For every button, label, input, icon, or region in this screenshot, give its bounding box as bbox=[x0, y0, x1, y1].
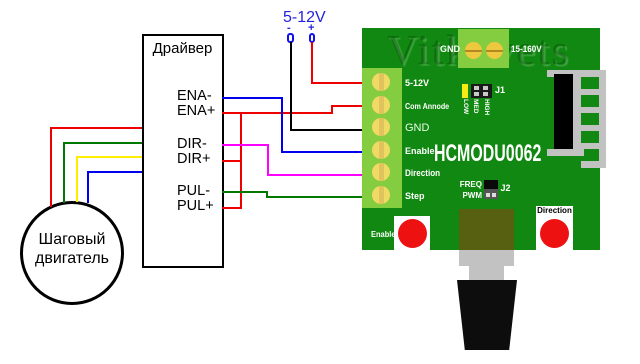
label LOW bbox=[462, 99, 469, 114]
wire DIR- magenta to Direction bbox=[0, 0, 640, 1]
heatsink rung 2 bbox=[581, 107, 599, 113]
probe plus sign bbox=[308, 22, 314, 34]
wire motor B green bbox=[0, 0, 640, 1]
heatsink rung 4 bbox=[581, 143, 599, 149]
driver box (Драйвер) bbox=[142, 34, 224, 268]
probe minus sign bbox=[287, 22, 291, 34]
pin labels DIR bbox=[177, 137, 210, 168]
heatsink right rail bbox=[599, 70, 606, 168]
label Enable button bbox=[371, 229, 396, 239]
label Direction pin bbox=[405, 168, 440, 178]
potentiometer bushing wide bbox=[459, 250, 514, 266]
label GND top bbox=[440, 44, 460, 54]
wire power minus black bbox=[0, 0, 640, 1]
jumper J1 yellow shunt bbox=[462, 84, 468, 99]
probe terminal minus bbox=[287, 33, 294, 43]
PCB module U1 board bbox=[362, 28, 600, 250]
heatsink bottom bar bbox=[547, 149, 584, 156]
pin labels PUL bbox=[177, 184, 214, 215]
label 15-160V bbox=[511, 44, 542, 54]
wire ENA+ red to Com Annode bbox=[0, 0, 640, 1]
wire red common bus bbox=[240, 112, 242, 210]
label Enable pin bbox=[405, 146, 435, 156]
terminal block J4 bbox=[362, 68, 402, 208]
wire PUL- green to Step bbox=[0, 0, 640, 1]
wire ENA- blue to Enable bbox=[0, 0, 640, 1]
potentiometer knob bbox=[457, 280, 517, 350]
label HIGH bbox=[483, 99, 490, 115]
probe terminal plus bbox=[309, 33, 316, 43]
IC black bar bbox=[554, 74, 573, 149]
button Enable bbox=[394, 216, 430, 250]
screw Step bbox=[372, 186, 390, 204]
label PWM bbox=[462, 191, 482, 200]
wire power plus red bbox=[0, 0, 640, 1]
jumper J1 pin block bbox=[471, 84, 493, 99]
screw 15-160V bbox=[486, 42, 503, 59]
screw GND bbox=[465, 42, 482, 59]
heatsink top bar bbox=[547, 70, 606, 77]
label Com Annode bbox=[405, 101, 449, 111]
label 5-12V pin bbox=[405, 78, 429, 88]
label HCMODU0062 bbox=[434, 140, 541, 168]
screw GND in bbox=[372, 118, 390, 136]
label GND pin bbox=[405, 122, 429, 134]
label Direction button bbox=[536, 206, 573, 216]
screw 5-12V bbox=[372, 73, 390, 91]
button Direction bbox=[536, 216, 573, 250]
label J1 bbox=[495, 85, 505, 95]
motor M1 (Шаговый двигатель) bbox=[20, 201, 124, 305]
heatsink rung 1 bbox=[581, 89, 599, 95]
power screw connector J3 bbox=[458, 29, 509, 68]
potentiometer bushing narrow bbox=[469, 266, 504, 280]
pin labels ENA bbox=[177, 89, 215, 120]
wire motor C yellow bbox=[0, 0, 640, 1]
jumper J2 block bbox=[484, 180, 498, 199]
label Step pin bbox=[405, 191, 425, 201]
heatsink rung 3 bbox=[581, 125, 599, 131]
label FREQ bbox=[460, 180, 482, 189]
screw Direction bbox=[372, 163, 390, 181]
power label 5-12V bbox=[283, 9, 326, 27]
watermark Vitkovets bbox=[387, 27, 570, 75]
potentiometer body bbox=[459, 209, 514, 250]
wire PUL+ red stub bbox=[222, 207, 242, 209]
wire DIR+ red stub bbox=[222, 160, 242, 162]
heatsink left rail bbox=[573, 70, 581, 156]
heatsink rung 5 bbox=[581, 161, 599, 168]
wire motor D blue bbox=[0, 0, 640, 1]
wire motor A red bbox=[0, 0, 640, 1]
label J2 bbox=[501, 183, 511, 193]
screw Enable bbox=[372, 141, 390, 159]
label MED bbox=[472, 99, 479, 113]
screw Com Annode bbox=[372, 96, 390, 114]
